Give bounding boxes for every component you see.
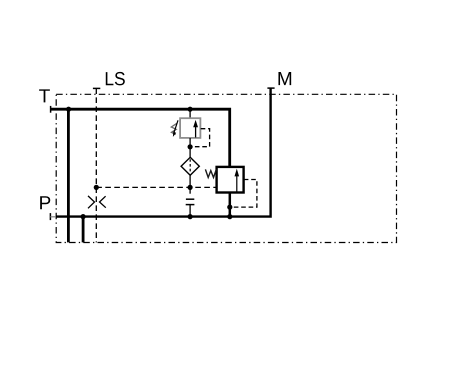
spring of V1 [171, 123, 177, 134]
port label T [39, 89, 50, 102]
junction dot: V2 outlet / pilot [227, 205, 232, 210]
junction dot: V2 outlet / P line [227, 214, 232, 219]
port label M [278, 72, 291, 85]
wire: V1 outlet down to filter [189, 138, 191, 157]
port M tick [267, 87, 274, 89]
port P tick [49, 213, 51, 220]
relief valve V2 (lower) [205, 167, 243, 193]
junction dot: P line / plug line [188, 214, 193, 219]
port T tick [50, 106, 52, 113]
filter F1 (diamond with dashed line) [181, 157, 199, 175]
pilot line of V1 (dashed) [192, 129, 209, 147]
relief valve V1 (upper, gray body) [171, 118, 200, 138]
junction dot: T line / drop [66, 107, 71, 112]
junction dot: V1 outlet / pilot [188, 144, 193, 149]
junction dot: LS line branch [94, 185, 99, 190]
junction dot: LS / filter node [188, 185, 193, 190]
wire: valve V2 outlet to P line [229, 192, 232, 217]
plug symbol between LS node and P line [186, 189, 195, 217]
junction dot: P line / drop [81, 214, 86, 219]
wire: branch from T line to valve V1 [189, 109, 191, 118]
port label LS [106, 72, 125, 85]
wire: T line to valve V2 inlet [51, 109, 230, 167]
wire: LS horizontal dashed line to valve V2 spring side [96, 186, 216, 188]
adjustment arrow of V1 [174, 120, 178, 132]
spring of V2 (W) [205, 169, 216, 177]
wire: T drop line to bottom edge [67, 109, 70, 242]
wire: P drop line to bottom edge [82, 217, 85, 243]
wire: P stub (thin) from tick to boundary [50, 216, 56, 218]
port LS tick [93, 87, 100, 89]
pilot line of V2 (dashed) [232, 180, 257, 208]
port label P [40, 196, 50, 209]
wire: filter to LS node [189, 175, 191, 187]
enclosure boundary (dash-dot manifold outline) [56, 94, 396, 242]
wire: LS vertical dashed line [95, 88, 97, 242]
wire: M line + P line [56, 88, 271, 217]
plugged crossing symbol (chevrons) on LS line [88, 196, 95, 208]
junction dot: T line / V1 branch [188, 107, 193, 112]
